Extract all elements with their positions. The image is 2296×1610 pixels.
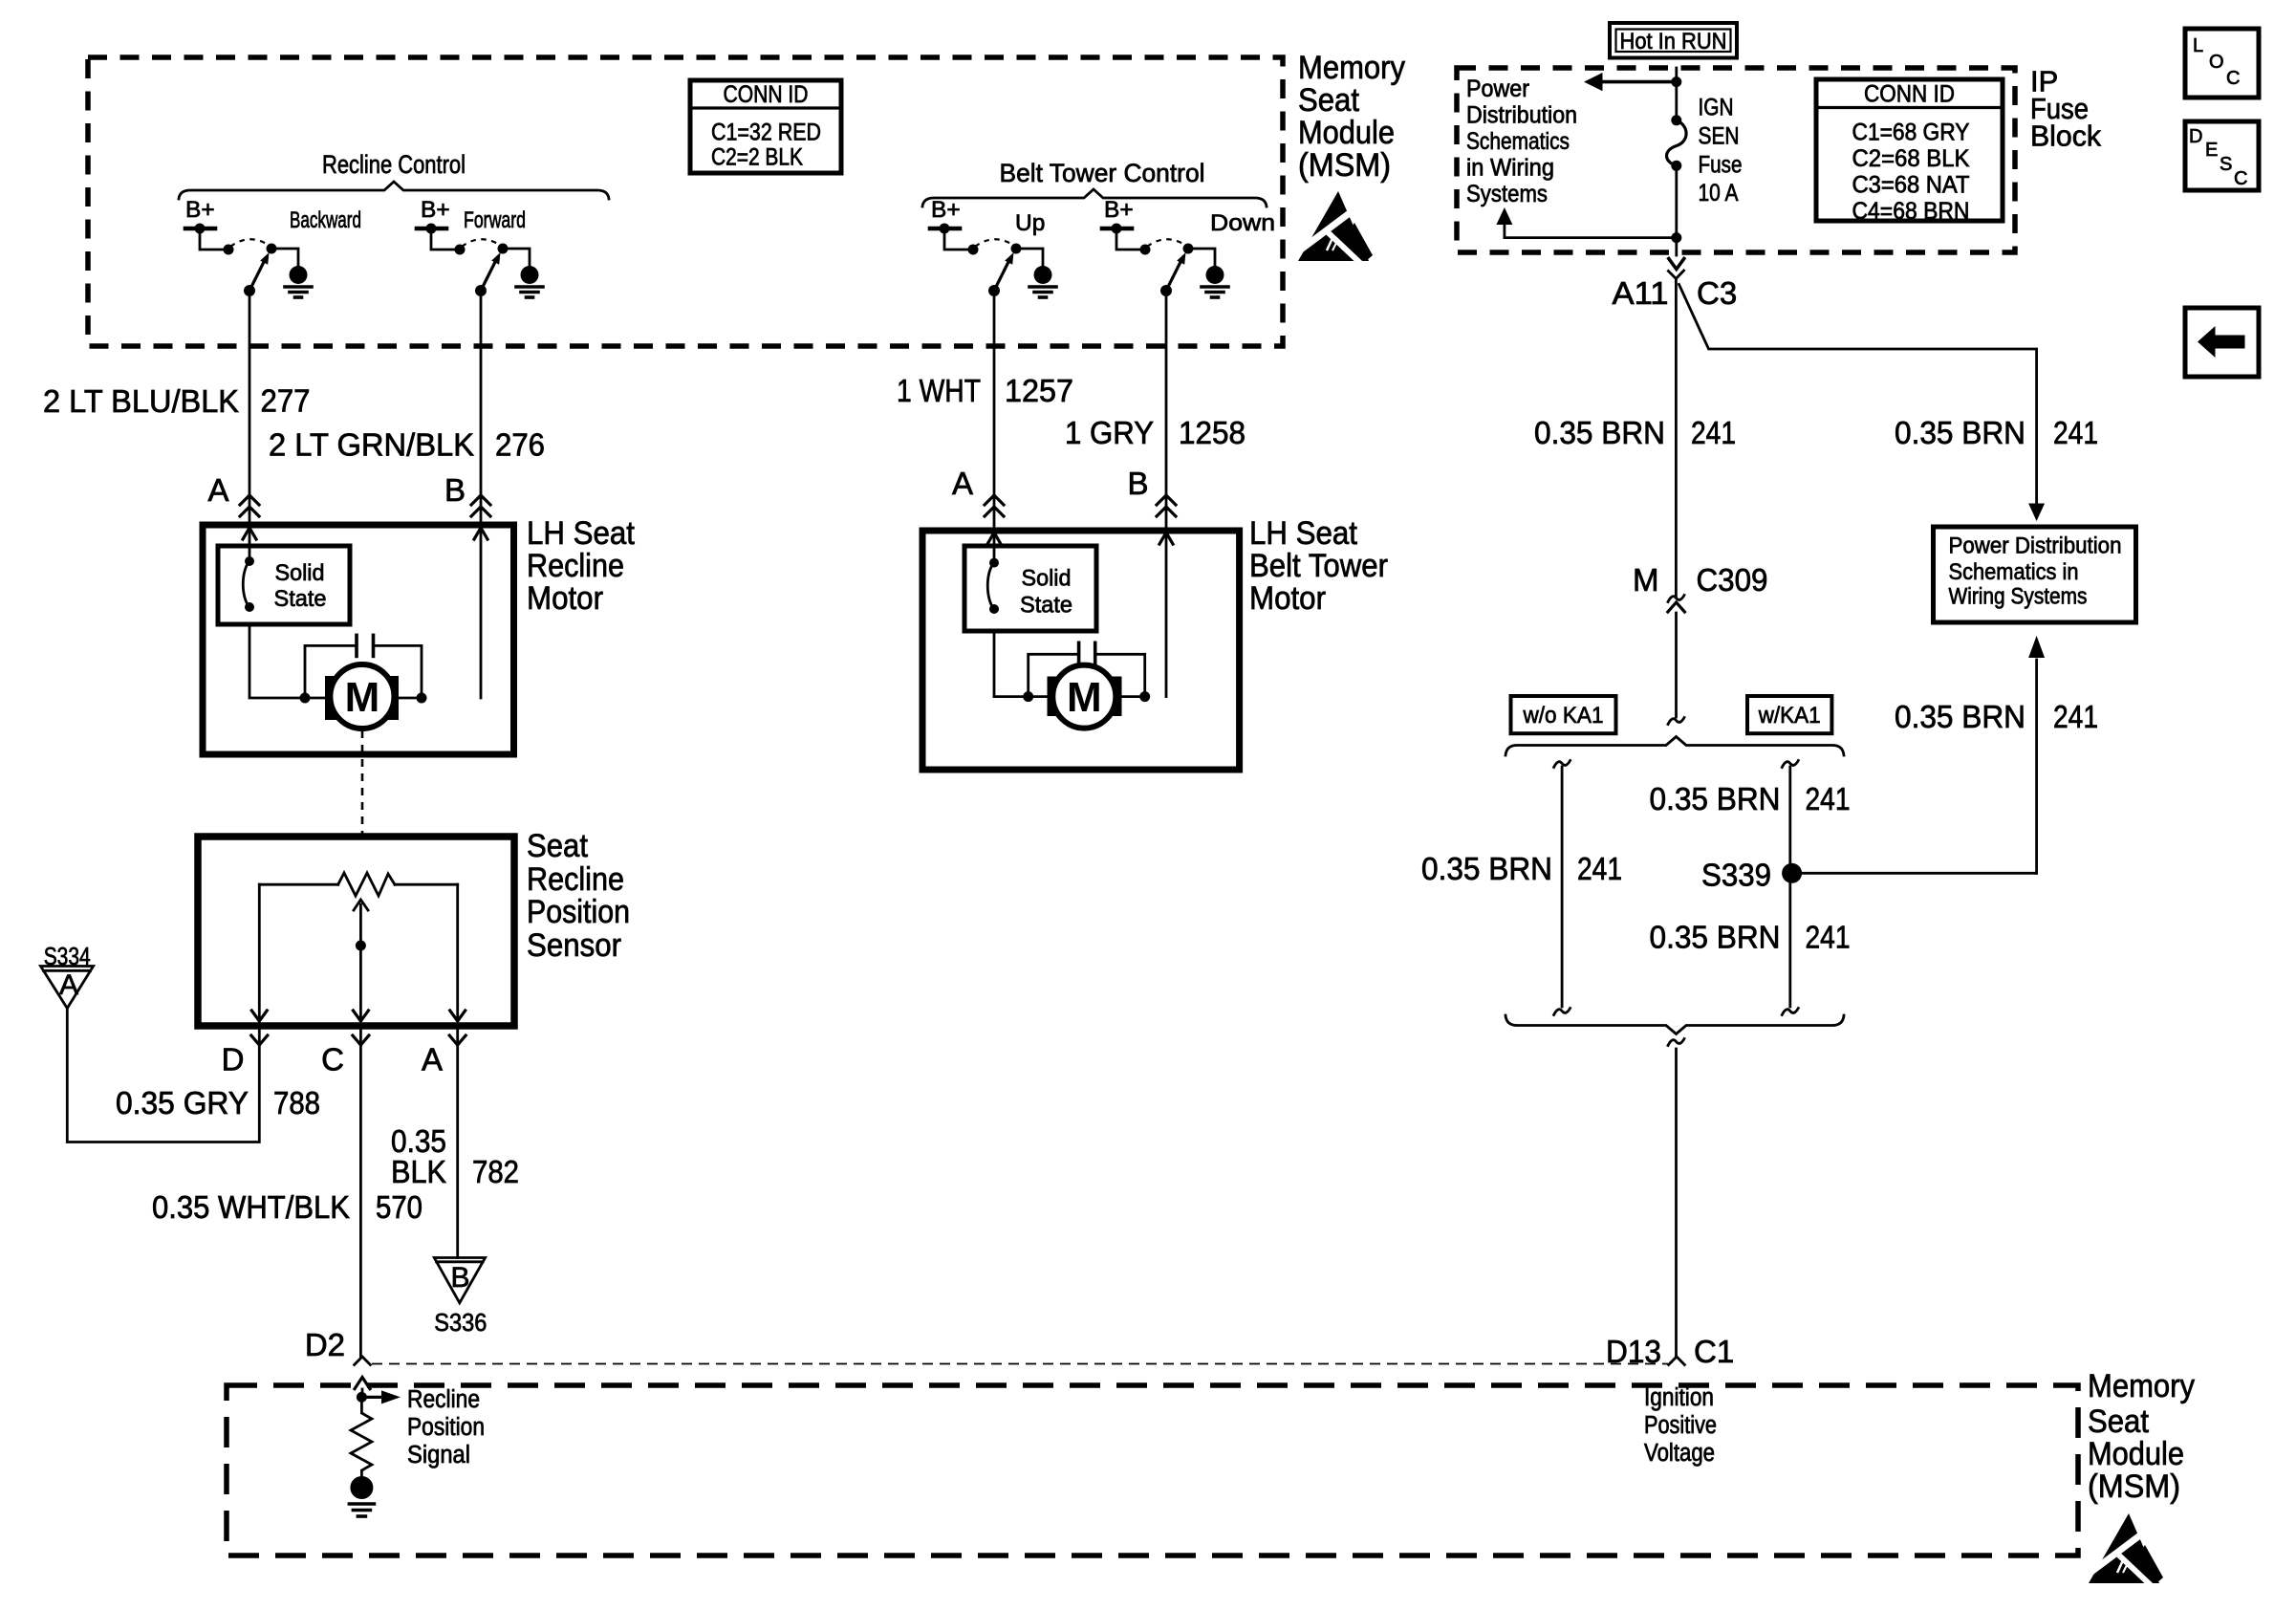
svg-text:241: 241 xyxy=(1806,781,1851,816)
svg-text:Motor: Motor xyxy=(527,580,603,617)
svg-text:B: B xyxy=(444,472,466,508)
svg-text:CONN ID: CONN ID xyxy=(724,81,809,108)
svg-text:277: 277 xyxy=(261,383,311,419)
svg-text:241: 241 xyxy=(1577,851,1622,886)
svg-text:Voltage: Voltage xyxy=(1644,1440,1715,1467)
svg-text:B+: B+ xyxy=(185,197,215,223)
svg-text:782: 782 xyxy=(472,1154,519,1189)
svg-text:C1=32 RED: C1=32 RED xyxy=(711,120,821,146)
svg-text:Seat: Seat xyxy=(2088,1403,2149,1440)
svg-text:Solid: Solid xyxy=(275,560,325,586)
svg-text:A: A xyxy=(207,472,228,508)
svg-text:B+: B+ xyxy=(931,197,961,223)
svg-text:570: 570 xyxy=(376,1189,422,1225)
svg-text:Schematics in: Schematics in xyxy=(1949,559,2079,585)
svg-text:A: A xyxy=(952,466,973,501)
svg-text:Systems: Systems xyxy=(1466,181,1548,207)
svg-text:M: M xyxy=(1633,562,1659,598)
svg-text:State: State xyxy=(1020,593,1072,619)
svg-text:B: B xyxy=(450,1262,469,1294)
svg-text:Module: Module xyxy=(2088,1436,2184,1472)
svg-text:Recline: Recline xyxy=(407,1386,480,1413)
svg-text:241: 241 xyxy=(1691,415,1736,450)
svg-text:in Wiring: in Wiring xyxy=(1466,155,1554,182)
svg-text:C2=2 BLK: C2=2 BLK xyxy=(711,144,803,171)
svg-text:Wiring Systems: Wiring Systems xyxy=(1949,584,2088,610)
svg-text:241: 241 xyxy=(2053,699,2098,734)
svg-text:D2: D2 xyxy=(305,1327,345,1362)
svg-text:Seat: Seat xyxy=(1298,82,1359,119)
svg-text:M: M xyxy=(345,674,380,721)
svg-text:1 GRY: 1 GRY xyxy=(1065,415,1154,450)
svg-text:C3: C3 xyxy=(1697,275,1737,311)
svg-text:LH Seat: LH Seat xyxy=(527,515,636,552)
svg-text:10 A: 10 A xyxy=(1699,180,1739,207)
svg-text:M: M xyxy=(1067,674,1102,721)
svg-text:State: State xyxy=(274,586,327,612)
svg-text:S: S xyxy=(2220,154,2232,175)
svg-text:0.35 BRN: 0.35 BRN xyxy=(1534,415,1665,450)
svg-text:Recline: Recline xyxy=(527,861,624,898)
svg-text:E: E xyxy=(2205,140,2218,161)
svg-text:C3=68 NAT: C3=68 NAT xyxy=(1852,172,1970,199)
svg-text:w/KA1: w/KA1 xyxy=(1758,703,1821,729)
svg-text:C4=68 BRN: C4=68 BRN xyxy=(1852,198,1970,225)
svg-text:Fuse: Fuse xyxy=(1699,152,1743,179)
svg-text:Recline Control: Recline Control xyxy=(322,150,466,179)
svg-text:C2=68 BLK: C2=68 BLK xyxy=(1852,145,1970,172)
svg-text:IGN: IGN xyxy=(1699,95,1734,121)
svg-text:Ignition: Ignition xyxy=(1644,1384,1714,1411)
svg-text:788: 788 xyxy=(273,1085,320,1120)
svg-text:LH Seat: LH Seat xyxy=(1249,515,1358,552)
svg-text:C: C xyxy=(321,1042,344,1077)
svg-text:(MSM): (MSM) xyxy=(1298,147,1391,184)
svg-text:1257: 1257 xyxy=(1005,373,1073,408)
svg-text:Solid: Solid xyxy=(1022,566,1072,592)
svg-text:B+: B+ xyxy=(1104,197,1134,223)
svg-text:0.35 BRN: 0.35 BRN xyxy=(1895,415,2025,450)
svg-text:Recline: Recline xyxy=(527,548,624,584)
svg-text:241: 241 xyxy=(2053,415,2098,450)
svg-text:D13: D13 xyxy=(1606,1334,1661,1369)
svg-text:Schematics: Schematics xyxy=(1466,128,1570,155)
svg-text:Positive: Positive xyxy=(1644,1412,1717,1439)
svg-text:Distribution: Distribution xyxy=(1466,102,1577,129)
svg-text:Position: Position xyxy=(407,1414,485,1441)
svg-text:A: A xyxy=(59,969,78,1001)
svg-text:Signal: Signal xyxy=(407,1442,470,1469)
svg-text:Power Distribution: Power Distribution xyxy=(1949,533,2122,559)
svg-text:CONN ID: CONN ID xyxy=(1864,81,1955,108)
svg-text:241: 241 xyxy=(1806,920,1851,955)
svg-text:Motor: Motor xyxy=(1249,580,1326,617)
svg-text:C: C xyxy=(2234,168,2247,189)
svg-text:C1: C1 xyxy=(1694,1334,1734,1369)
svg-text:Up: Up xyxy=(1015,210,1045,236)
svg-text:Belt Tower: Belt Tower xyxy=(1249,548,1388,584)
svg-text:SEN: SEN xyxy=(1699,123,1740,150)
svg-text:0.35 GRY: 0.35 GRY xyxy=(116,1085,249,1120)
svg-text:S339: S339 xyxy=(1701,858,1771,893)
svg-text:L: L xyxy=(2193,35,2203,56)
svg-text:0.35 BRN: 0.35 BRN xyxy=(1650,920,1781,955)
svg-text:Seat: Seat xyxy=(527,828,588,864)
svg-text:C1=68 GRY: C1=68 GRY xyxy=(1852,120,1970,146)
svg-text:Sensor: Sensor xyxy=(527,927,621,964)
svg-text:Backward: Backward xyxy=(290,207,361,233)
svg-text:Forward: Forward xyxy=(464,207,526,233)
svg-text:(MSM): (MSM) xyxy=(2088,1469,2180,1505)
svg-text:BLK: BLK xyxy=(391,1154,446,1189)
svg-text:A: A xyxy=(422,1042,443,1077)
svg-text:0.35 BRN: 0.35 BRN xyxy=(1650,781,1781,816)
svg-text:Belt Tower Control: Belt Tower Control xyxy=(1000,159,1205,187)
svg-text:C: C xyxy=(2226,68,2240,89)
svg-text:w/o KA1: w/o KA1 xyxy=(1523,703,1604,729)
svg-text:Module: Module xyxy=(1298,115,1395,151)
svg-text:1 WHT: 1 WHT xyxy=(897,373,981,408)
svg-text:B: B xyxy=(1127,466,1148,501)
svg-text:C309: C309 xyxy=(1697,562,1768,598)
svg-text:S336: S336 xyxy=(434,1310,487,1337)
svg-text:2 LT BLU/BLK: 2 LT BLU/BLK xyxy=(43,383,239,419)
svg-text:Down: Down xyxy=(1210,210,1275,236)
svg-text:D: D xyxy=(222,1042,245,1077)
svg-text:Memory: Memory xyxy=(1298,50,1405,86)
svg-text:1258: 1258 xyxy=(1179,415,1245,450)
svg-text:B+: B+ xyxy=(421,197,450,223)
svg-text:Position: Position xyxy=(527,894,630,930)
svg-text:0.35 WHT/BLK: 0.35 WHT/BLK xyxy=(152,1189,350,1225)
svg-text:2 LT GRN/BLK: 2 LT GRN/BLK xyxy=(269,427,474,463)
svg-text:0.35 BRN: 0.35 BRN xyxy=(1895,699,2025,734)
svg-text:Block: Block xyxy=(2030,120,2101,153)
svg-text:Hot In RUN: Hot In RUN xyxy=(1620,29,1727,54)
svg-text:D: D xyxy=(2189,126,2202,147)
svg-text:276: 276 xyxy=(495,427,545,463)
svg-text:Memory: Memory xyxy=(2088,1368,2195,1404)
svg-text:O: O xyxy=(2209,52,2224,73)
svg-text:A11: A11 xyxy=(1613,275,1669,311)
svg-text:Power: Power xyxy=(1466,76,1529,102)
svg-text:0.35 BRN: 0.35 BRN xyxy=(1421,851,1552,886)
